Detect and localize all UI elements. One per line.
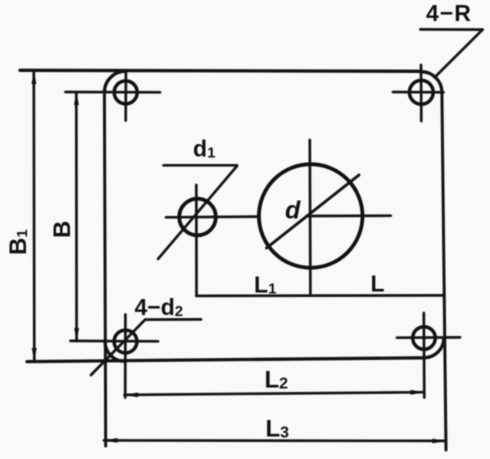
dimension B1 top arrow bbox=[32, 71, 37, 84]
label d1 leader diagonal bbox=[158, 166, 237, 259]
hole top-right crosshair horizontal bbox=[393, 91, 444, 94]
hole bottom-right crosshair vertical (L2 extension) bbox=[422, 313, 425, 398]
svg-text:L1: L1 bbox=[254, 272, 276, 298]
hole bottom-right circle bbox=[413, 327, 436, 350]
svg-text:B1: B1 bbox=[5, 229, 32, 255]
hole bottom-left circle bbox=[114, 330, 137, 353]
big hole d vertical centerline bbox=[308, 140, 311, 296]
plate bottom edge bbox=[27, 358, 424, 362]
big hole d horizontal centerline (right half) bbox=[307, 214, 391, 217]
dimension line L1/L baseline bbox=[196, 294, 443, 297]
dimension B top arrow bbox=[74, 92, 79, 105]
small hole d1 vertical centerline (extends to L1 line) bbox=[195, 185, 198, 296]
hole top-left crosshair horizontal bbox=[66, 91, 161, 94]
hole top-right crosshair vertical bbox=[420, 65, 423, 121]
label 4-d2 underline bbox=[145, 318, 201, 321]
hole top-right circle bbox=[409, 80, 433, 104]
plate top-left corner arc bbox=[104, 71, 125, 92]
plate right edge (with L3 extension below) bbox=[442, 92, 446, 450]
svg-text:L3: L3 bbox=[266, 416, 290, 443]
plate top edge bbox=[20, 70, 421, 71]
plate top-right corner arc bbox=[421, 72, 442, 93]
dimension L2 right arrow bbox=[411, 390, 425, 395]
plate bottom-right corner arc bbox=[424, 338, 444, 358]
svg-text:B: B bbox=[49, 221, 76, 238]
hole bottom-right crosshair horizontal bbox=[397, 336, 460, 339]
small hole d1 circle bbox=[179, 199, 216, 236]
hole top-left crosshair vertical bbox=[124, 71, 127, 121]
svg-text:4−d2: 4−d2 bbox=[135, 294, 184, 320]
hole bottom-left crosshair vertical (L2 extension) bbox=[124, 315, 127, 398]
small hole d1 horizontal centerline bbox=[166, 215, 259, 218]
label 4-R underline bbox=[420, 28, 482, 31]
dimension L2 left arrow bbox=[124, 393, 138, 398]
dimension B1 line bbox=[32, 71, 35, 361]
big hole d circle bbox=[259, 164, 363, 268]
dimension B line bbox=[75, 92, 78, 341]
plate bottom-left corner arc bbox=[105, 342, 126, 362]
dimension L3 line bbox=[104, 439, 446, 442]
dimension L3 left arrow bbox=[104, 438, 118, 443]
svg-text:L2: L2 bbox=[265, 367, 289, 394]
dimension L2 line bbox=[125, 392, 425, 395]
hole bottom-left crosshair horizontal bbox=[71, 340, 159, 343]
svg-text:d1: d1 bbox=[193, 136, 215, 162]
hole top-left circle bbox=[114, 81, 137, 104]
label d1 underline bbox=[164, 164, 238, 167]
plate left edge (with L3 extension below) bbox=[104, 93, 105, 447]
svg-text:L: L bbox=[371, 271, 385, 297]
svg-text:d: d bbox=[285, 197, 301, 225]
label 4-R leader diagonal bbox=[435, 30, 483, 78]
big hole d diameter diagonal bbox=[267, 175, 360, 248]
svg-text:4−R: 4−R bbox=[426, 0, 471, 26]
dimension B bottom arrow bbox=[74, 328, 79, 341]
label 4-d2 leader diagonal (through bottom-left hole) bbox=[91, 320, 145, 375]
dimension B1 bottom arrow bbox=[32, 348, 37, 361]
dimension L3 right arrow bbox=[432, 439, 446, 444]
